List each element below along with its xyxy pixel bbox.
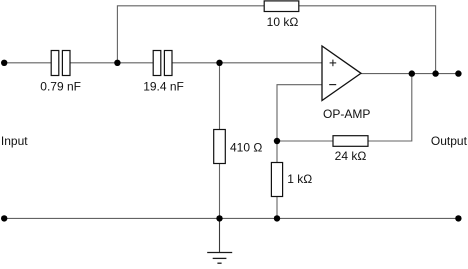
label Output — [431, 134, 468, 148]
wire 410 ohm branch vertical x=219.5 — [219, 63, 221, 219]
label op-amp OP-AMP — [323, 107, 370, 121]
node junction dot 1k to ground rail — [274, 215, 280, 221]
resistor R2 410 Ohm (vertical shunt) — [214, 130, 226, 164]
ground symbol — [207, 253, 232, 264]
input terminal (top) — [1, 60, 7, 66]
node A junction dot (C1/C2 to 10k feedback) — [114, 60, 120, 66]
wire input line y=62.8 from input terminal to C1 — [4, 62, 52, 64]
label Input — [1, 134, 28, 148]
label R4 value 1 kOhm — [287, 172, 312, 186]
wire input line y=62.8 from C1 to C2 — [70, 62, 154, 64]
wire input line y=62.8 from C2 to op-amp + input — [172, 62, 323, 64]
node junction dot at 410 ohm tap — [216, 60, 222, 66]
op-amp U1 minus input marking — [329, 84, 336, 86]
label R3 value 24 kOhm — [335, 149, 367, 163]
label C1 value 0.79 nF — [40, 79, 81, 93]
wire bottom ground rail y=218.4 — [4, 217, 459, 219]
svg-text:1 kΩ: 1 kΩ — [287, 172, 312, 186]
input terminal (bottom) — [1, 215, 7, 221]
node junction dot 410 ohm to ground rail — [216, 215, 222, 221]
svg-text:0.79 nF: 0.79 nF — [40, 79, 81, 93]
wire ground stem — [219, 218, 221, 252]
wire 1k bottom segment — [276, 197, 278, 219]
output terminal (top) — [455, 70, 461, 76]
op-amp U1 triangle — [322, 46, 361, 101]
svg-text:19.4 nF: 19.4 nF — [143, 79, 184, 93]
wire top feedback rail y=5.5 from node A up-left corner to right corner — [117, 6, 435, 74]
svg-text:410 Ω: 410 Ω — [230, 141, 262, 155]
svg-text:OP-AMP: OP-AMP — [323, 107, 370, 121]
svg-text:24 kΩ: 24 kΩ — [335, 149, 367, 163]
wire inverting input: from node B up and right to op-amp - input — [277, 85, 322, 141]
node junction dot output to 24k — [409, 70, 415, 76]
svg-text:10 kΩ: 10 kΩ — [267, 15, 299, 29]
label R2 value 410 Ohm — [230, 141, 262, 155]
wire 24k feedback: from output node down and left to inverting node — [277, 74, 412, 163]
resistor R1 10 kOhm (top feedback) — [264, 1, 299, 12]
output terminal (bottom) — [455, 215, 461, 221]
capacitor C1 0.79 nF (two plates) — [51, 51, 70, 76]
resistor R4 1 kOhm (vertical to ground) — [271, 163, 282, 197]
label C2 value 19.4 nF — [143, 79, 184, 93]
node junction dot output to 10k feedback — [432, 70, 438, 76]
wire output line y=73.6 from op-amp apex to output terminal — [361, 73, 459, 75]
svg-text:Input: Input — [1, 134, 28, 148]
node B junction dot (inverting node: 24k / 1k) — [274, 138, 280, 144]
op-amp U1 plus input marking — [330, 60, 337, 67]
capacitor C2 19.4 nF (two plates) — [153, 51, 172, 76]
svg-text:Output: Output — [431, 134, 468, 148]
resistor R3 24 kOhm (feedback, horizontal) — [333, 136, 368, 147]
label R1 value 10 kOhm — [267, 15, 299, 29]
